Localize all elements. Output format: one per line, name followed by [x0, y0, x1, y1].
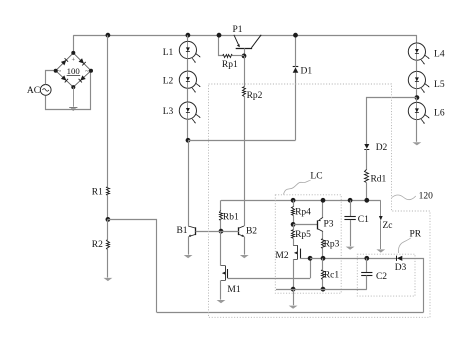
- wire C2 top: [366, 258, 368, 272]
- node rail-R1 junction: [106, 33, 111, 38]
- resistor R1: [92, 187, 110, 198]
- wire to Rp4: [293, 200, 295, 207]
- wire node to P3 base: [293, 224, 317, 226]
- wire AC bottom to bridge right: [46, 71, 91, 110]
- node R1-R2 junction: [106, 217, 111, 222]
- dashed box 120: [209, 84, 431, 317]
- node row-C2 junction: [364, 256, 369, 261]
- wire P3 collector to Rp3: [322, 232, 324, 239]
- wire Rb1-top to Zc corner: [221, 200, 381, 202]
- wire M1 gate line: [228, 278, 311, 280]
- resistor Rp1: [222, 55, 238, 71]
- wire D1 to rail: [295, 35, 297, 67]
- wire Rp2 to B2 collector: [244, 96, 246, 226]
- label B1: [176, 226, 187, 236]
- transistor B2 collector: [239, 226, 244, 228]
- label P1: [232, 25, 242, 35]
- node rail-Rp1 junction: [217, 33, 222, 38]
- dashed box LC: [275, 195, 341, 293]
- transistor P3 emitter: [318, 217, 323, 221]
- mosfet M1: [221, 266, 241, 296]
- ground arrow below R2: [104, 278, 113, 281]
- svg-text:L3: L3: [163, 107, 174, 117]
- wire P1 base down: [244, 48, 246, 56]
- wire R2 to arrow: [107, 249, 109, 277]
- svg-text:D2: D2: [376, 143, 388, 153]
- wire R-junction to bottom rail: [108, 220, 157, 313]
- wire node to L6: [416, 98, 418, 103]
- dashed box PR: [357, 254, 415, 296]
- svg-text:D1: D1: [300, 66, 312, 76]
- transistor P1 emitter: [234, 35, 240, 47]
- resistor Rd1: [365, 170, 387, 185]
- wire R1 to node: [107, 196, 109, 220]
- svg-text:~: ~: [57, 68, 61, 76]
- wire node to Rp5: [293, 224, 295, 229]
- wire Rp1 to base node: [233, 55, 244, 57]
- wire L4-L5: [416, 60, 418, 71]
- wire L5L6-node to D2: [367, 98, 417, 145]
- node Rc1 bottom junction: [321, 287, 326, 292]
- transistor B1 emitter: [188, 234, 195, 236]
- svg-text:D3: D3: [395, 263, 407, 273]
- diode D1: [293, 66, 313, 76]
- wire bottom rail: [157, 312, 424, 314]
- wire node to Rc1: [322, 258, 324, 269]
- svg-text:Rp2: Rp2: [247, 91, 263, 101]
- svg-text:C2: C2: [376, 272, 387, 282]
- transistor B1 base wire: [196, 231, 221, 233]
- wire Rp5 to M2: [293, 239, 295, 245]
- node P1 base junction: [242, 54, 247, 59]
- wire Rd1 to node: [366, 183, 368, 200]
- transistor B1 bar: [195, 227, 197, 235]
- node L5-L6 junction: [415, 95, 420, 100]
- label P3: [323, 219, 333, 229]
- wire B1 emitter down: [188, 237, 190, 255]
- lamp L3: [163, 102, 201, 124]
- wire node to R2: [107, 219, 109, 239]
- lamp L4: [408, 43, 445, 65]
- wire LC bottom: [276, 289, 367, 291]
- transistor B1 collector: [188, 226, 196, 228]
- resistor R2: [92, 240, 110, 251]
- wire rail to L1: [187, 35, 189, 41]
- wire gate row: [310, 258, 396, 260]
- resistor Rp3: [322, 239, 340, 250]
- ground arrow below B2: [240, 255, 249, 258]
- node rail-L1 junction: [186, 33, 191, 38]
- svg-text:M1: M1: [227, 285, 240, 295]
- label 120: [392, 191, 433, 201]
- svg-text:Rp4: Rp4: [295, 208, 311, 218]
- wire D3 to bottom rail: [403, 259, 424, 313]
- wire gate line up to node: [310, 258, 312, 278]
- wire L3 to node: [187, 119, 189, 140]
- wire rail to Rp1: [219, 36, 223, 56]
- resistor Rp2: [243, 87, 263, 101]
- wire base node to Rp2: [244, 56, 246, 87]
- svg-text:Rp1: Rp1: [222, 60, 238, 70]
- transistor B2 emitter: [239, 234, 245, 236]
- capacitor C2: [361, 272, 387, 282]
- node wire-Rp4 junction: [291, 198, 296, 203]
- wire L6 to arrow: [416, 120, 418, 142]
- ground below bridge: [69, 108, 77, 111]
- svg-text:L1: L1: [163, 48, 174, 58]
- svg-text:Rc1: Rc1: [324, 271, 340, 281]
- wire base node to M1 drain: [220, 231, 222, 266]
- svg-text:Rd1: Rd1: [370, 174, 386, 184]
- bridge rectifier 100: [54, 51, 93, 89]
- node B1B2 base junction: [219, 229, 224, 234]
- svg-text:P3: P3: [323, 219, 333, 229]
- wire M2 source down: [293, 259, 295, 289]
- node wire-P3 junction: [321, 198, 326, 203]
- svg-text:R2: R2: [92, 240, 103, 250]
- label LC: [284, 172, 323, 195]
- wire P3 emitter up: [322, 200, 324, 217]
- transistor P1 collector: [251, 35, 261, 48]
- svg-text:~: ~: [85, 68, 89, 76]
- wire Rp4 to node: [293, 215, 295, 224]
- svg-text:R1: R1: [92, 187, 103, 197]
- AC source: [27, 85, 51, 97]
- wire M1 source down: [220, 280, 222, 299]
- node L3 bottom junction: [186, 138, 191, 143]
- wire C1 top: [350, 200, 352, 217]
- wire B1 collector up: [188, 140, 190, 226]
- svg-text:P1: P1: [232, 25, 242, 35]
- wire bridge bottom to ground: [73, 87, 75, 107]
- wire rail to R1: [107, 35, 109, 186]
- svg-text:L6: L6: [434, 109, 445, 119]
- ground arrow below M1: [217, 300, 226, 303]
- node M2 source junction: [291, 287, 296, 292]
- label B2: [246, 227, 257, 237]
- resistor Rp4: [292, 207, 312, 218]
- node Rp4-Rp5 junction: [291, 222, 296, 227]
- node wire-Rd1 junction: [364, 198, 369, 203]
- wire L3-node to D1 branch: [188, 140, 296, 142]
- wire D2 to Rd1: [366, 149, 368, 170]
- lamp L1: [163, 41, 201, 63]
- svg-text:L5: L5: [434, 80, 445, 90]
- ground arrow below L6: [413, 142, 422, 145]
- transistor P3 bar: [317, 220, 319, 229]
- transistor P1 bar: [236, 48, 252, 50]
- svg-text:L4: L4: [434, 49, 445, 59]
- svg-text:Rb1: Rb1: [223, 213, 239, 223]
- mosfet M2: [275, 245, 300, 261]
- wire L5 to node: [416, 89, 418, 98]
- ground arrow below M2: [289, 306, 298, 309]
- ground arrow below Zc: [376, 249, 385, 252]
- svg-text:120: 120: [419, 191, 434, 201]
- wire C2 bottom: [366, 276, 368, 290]
- node Rp3-Rc1 junction: [321, 256, 326, 261]
- svg-text:Zc: Zc: [382, 221, 392, 231]
- svg-text:B1: B1: [176, 226, 187, 236]
- svg-text:L2: L2: [163, 76, 174, 86]
- lamp L5: [408, 71, 445, 93]
- transistor B2 bar: [238, 227, 240, 235]
- wire M2 source to arrow: [293, 289, 295, 305]
- svg-text:C1: C1: [358, 215, 369, 225]
- ground arrow below C1: [346, 247, 355, 250]
- capacitor C1: [344, 215, 369, 225]
- lamp L6: [408, 102, 445, 124]
- transistor P3 collector: [318, 229, 324, 232]
- svg-text:Rp5: Rp5: [295, 230, 311, 240]
- wire Rb1 to base node: [220, 221, 222, 232]
- transistor B2 base wire: [221, 231, 239, 233]
- impedance Zc: [379, 201, 393, 250]
- wire M2 gate lead: [300, 258, 310, 260]
- svg-text:M2: M2: [275, 251, 288, 261]
- svg-text:100: 100: [67, 66, 81, 76]
- wire Rp3 to node: [322, 249, 324, 259]
- diode D3: [395, 256, 407, 273]
- svg-text:AC: AC: [27, 86, 40, 96]
- lamp L2: [163, 71, 201, 93]
- svg-text:Rp3: Rp3: [324, 239, 340, 249]
- wire top rail: [73, 35, 417, 37]
- wire L2-L3: [187, 88, 189, 102]
- wire bridge top to rail: [73, 35, 75, 53]
- label PR: [398, 230, 421, 254]
- wire Rc1 to bottom node: [322, 279, 324, 289]
- wire C1 bottom: [350, 220, 352, 246]
- ground arrow below B1: [184, 255, 193, 258]
- diode D2: [364, 143, 387, 153]
- node D1 rail junction: [293, 33, 298, 38]
- wire B2 emitter down: [244, 237, 246, 255]
- wire Rb1 top segment: [220, 200, 222, 211]
- node wire-C1 junction: [348, 198, 353, 203]
- svg-text:+: +: [71, 57, 75, 64]
- svg-text:LC: LC: [310, 172, 322, 182]
- svg-text:PR: PR: [409, 230, 421, 240]
- wire L1-L2: [187, 59, 189, 72]
- resistor Rp5: [292, 230, 312, 241]
- svg-text:B2: B2: [246, 227, 257, 237]
- wire rail right end down to L4: [416, 35, 418, 43]
- wire AC top to bridge left: [46, 71, 56, 85]
- wire D1 up segment: [295, 73, 297, 141]
- resistor Rb1: [220, 211, 239, 223]
- node gate junction: [308, 256, 313, 261]
- resistor Rc1: [322, 270, 340, 281]
